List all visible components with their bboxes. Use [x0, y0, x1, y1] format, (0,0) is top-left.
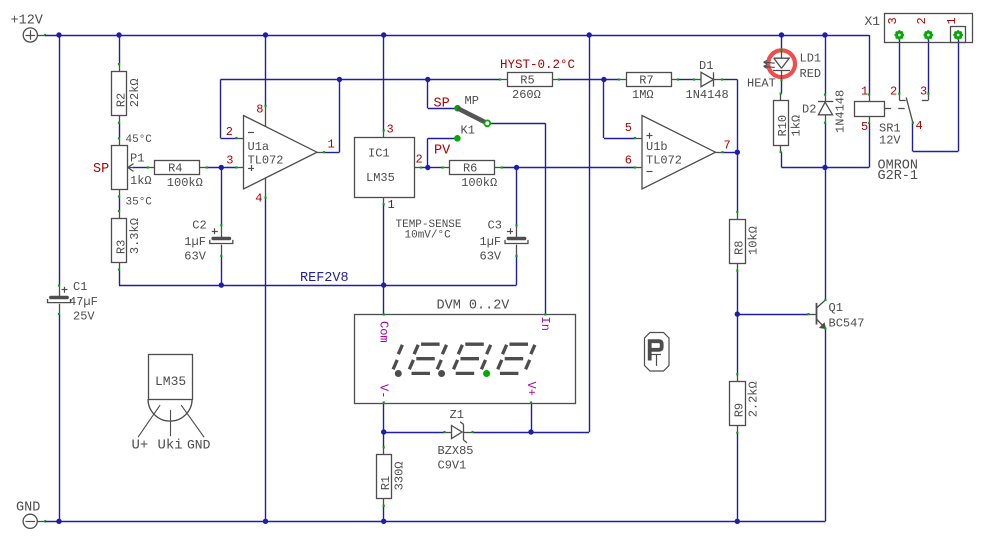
op-amp U1b input pin stubs: [635, 138, 642, 140]
svg-text:3: 3: [920, 85, 927, 99]
svg-text:260Ω: 260Ω: [512, 88, 541, 102]
svg-text:5: 5: [625, 121, 632, 135]
diode D1 pin stubs: [694, 79, 701, 81]
resistor R10 pin stubs: [780, 94, 782, 101]
svg-text:1µF: 1µF: [480, 235, 502, 249]
resistor R2 pin stubs: [119, 64, 121, 71]
resistor R7 pin stubs: [619, 79, 626, 81]
svg-text:7: 7: [724, 138, 731, 152]
transistor Q1 emitter with arrow: [816, 319, 825, 329]
relay SR1 contact arm: [906, 98, 913, 123]
capacitor C3 negative plate: [505, 240, 528, 244]
diode D1 cathode bar: [713, 72, 715, 86]
wire feedback line to R5: [340, 79, 501, 81]
wire +12V rail to D2: [825, 35, 827, 95]
wire K1 common to DVM In: [490, 123, 545, 125]
svg-text:100kΩ: 100kΩ: [167, 176, 203, 190]
wire X1-2 to relay contact 3: [928, 40, 930, 94]
wire +12V rail to R2: [119, 35, 121, 64]
wire relay contact 4 to X1-1: [912, 123, 914, 152]
wire R6 output junction down to C3: [516, 168, 518, 226]
resistor R1 body: [377, 455, 392, 499]
svg-text:LD1: LD1: [800, 52, 822, 66]
svg-text:6: 6: [625, 153, 632, 167]
wire IC1 pin 3 to +12V rail: [383, 35, 385, 131]
LM35 package leg Uki: [170, 410, 172, 436]
svg-text:47µF: 47µF: [69, 295, 98, 309]
svg-text:25V: 25V: [73, 309, 95, 323]
svg-text:R3: R3: [114, 240, 128, 254]
svg-text:10mV/°C: 10mV/°C: [405, 230, 452, 242]
wire SP branch down: [427, 80, 429, 109]
K1 jumper pad PV side: [454, 135, 461, 142]
svg-text:2: 2: [416, 153, 423, 167]
capacitor C1 plus sign: [62, 289, 68, 291]
wire Z1 anode line: [384, 432, 445, 434]
svg-text:IC1: IC1: [368, 147, 390, 161]
relay SR1 mechanical link dashes: [885, 108, 891, 110]
resistor R6 body: [450, 161, 495, 175]
K1 jumper common pad: [484, 120, 490, 126]
svg-text:BZX85: BZX85: [438, 444, 474, 458]
wire X1-3 to relay contact 2: [899, 40, 901, 94]
svg-text:In: In: [538, 317, 552, 331]
resistor R6 pin stubs: [443, 167, 450, 169]
svg-text:4: 4: [916, 119, 923, 133]
op-amp U1a output pin stub: [317, 152, 324, 154]
wire relay coil pin 5 down: [869, 123, 871, 168]
svg-text:HEAT: HEAT: [747, 77, 776, 91]
connector X1 pad 3: [894, 30, 904, 40]
wire R8 to Q1 base junction: [737, 271, 739, 315]
capacitor C2 positive plate: [213, 237, 229, 240]
svg-text:R9: R9: [733, 403, 747, 417]
wire Z1 junction to R1: [383, 432, 385, 447]
svg-text:V+: V+: [524, 382, 538, 396]
diode D2 cathode bar: [818, 101, 833, 103]
wire R6 to U1b pin 6: [501, 167, 635, 169]
potentiometer P1 pin stubs: [119, 138, 121, 145]
DVM digit 1: [398, 345, 402, 354]
svg-text:1N4148: 1N4148: [686, 88, 729, 102]
LM35 package semicircle: [148, 399, 192, 421]
+12V supply symbol: [23, 28, 37, 42]
wire junction down to U1b pin 5: [603, 80, 605, 139]
svg-text:R4: R4: [168, 161, 182, 175]
wire DVM V+ down to Z1 line: [531, 403, 533, 432]
resistor R9 body: [730, 382, 746, 426]
svg-text:Uki: Uki: [158, 438, 183, 454]
svg-text:330Ω: 330Ω: [393, 461, 407, 490]
relay SR1 coil pin stubs: [869, 95, 871, 102]
potentiometer P1 body: [112, 146, 128, 190]
LM35 package leg U+: [138, 405, 160, 437]
svg-text:2: 2: [890, 85, 897, 99]
op-amp U1b triangle: [642, 116, 716, 190]
IC1 LM35 body: [355, 138, 415, 198]
capacitor C1 positive plate: [51, 296, 67, 299]
DVM digit 8 first: [421, 343, 440, 346]
LED LD1 symbol: [781, 50, 783, 58]
capacitor C3 positive plate: [508, 237, 524, 240]
DVM decimal point 1: [395, 370, 402, 377]
capacitor C2 pin stubs: [221, 225, 223, 237]
svg-text:V-: V-: [377, 384, 391, 398]
svg-text:5: 5: [861, 120, 868, 134]
capacitor C2 negative plate: [210, 240, 233, 244]
K1 jumper pad SP side: [454, 105, 461, 112]
connector X1 body: [885, 14, 973, 43]
op-amp U1a pin 4 stub: [265, 178, 267, 198]
resistor R7 body: [627, 73, 672, 87]
resistor R3 pin stubs: [119, 211, 121, 218]
relay SR1 contact common piece: [899, 94, 901, 100]
resistor R4 pin stubs: [148, 167, 155, 169]
wire U1a pin 2 feedback loop: [221, 138, 237, 140]
svg-text:SP: SP: [93, 162, 109, 177]
zener diode Z1: [445, 432, 452, 434]
svg-text:TL072: TL072: [248, 153, 284, 167]
svg-text:BC547: BC547: [829, 317, 865, 331]
wire REF2V8 rail: [119, 285, 517, 287]
svg-text:100kΩ: 100kΩ: [461, 176, 497, 190]
wire IC1 pin 2 to junction: [421, 167, 428, 169]
svg-text:C1: C1: [73, 280, 87, 294]
svg-text:4: 4: [255, 192, 262, 206]
diode D2 triangle: [818, 102, 832, 115]
svg-text:22kΩ: 22kΩ: [128, 78, 142, 107]
svg-text:U1a: U1a: [248, 140, 270, 154]
wire GND rail rise to Q1 emitter: [825, 329, 827, 522]
wire P1 to R3: [119, 197, 121, 212]
svg-text:45°C: 45°C: [126, 134, 153, 146]
DVM digit 8 second: [465, 343, 484, 346]
svg-text:RED: RED: [800, 67, 822, 81]
wire Q1 base: [737, 314, 808, 316]
svg-text:1kΩ: 1kΩ: [790, 115, 804, 137]
LM35 package leg GND: [181, 405, 204, 437]
op-amp U1b + input marker: [647, 135, 653, 137]
svg-text:Com: Com: [377, 321, 391, 343]
svg-text:2.2kΩ: 2.2kΩ: [746, 381, 760, 417]
resistor R10 body: [774, 101, 789, 146]
wire +12V rail drop to relay coil pin 1: [869, 35, 871, 95]
wire R7 to D1: [678, 79, 694, 81]
connector X1 pad 2: [923, 30, 933, 40]
resistor R5 body: [508, 73, 553, 87]
IC1 pin stubs: [383, 131, 385, 138]
svg-text:P1: P1: [130, 151, 144, 165]
svg-text:R1: R1: [379, 476, 393, 490]
svg-text:MP: MP: [465, 94, 479, 108]
wire P1 wiper to R4: [133, 167, 148, 169]
op-amp U1a triangle: [244, 116, 318, 190]
DVM digit 8 third: [510, 343, 529, 346]
resistor R1 pin stubs: [383, 447, 385, 454]
svg-text:LM35: LM35: [366, 171, 395, 185]
svg-text:2: 2: [915, 17, 929, 24]
svg-text:Z1: Z1: [450, 408, 464, 422]
svg-text:3.3kΩ: 3.3kΩ: [128, 218, 142, 254]
svg-text:D2: D2: [802, 103, 816, 117]
svg-text:R2: R2: [114, 93, 128, 107]
wire junction down to R9: [737, 314, 739, 374]
wire Q1 collector to heat line: [825, 168, 827, 301]
svg-text:R7: R7: [639, 73, 653, 87]
svg-text:K1: K1: [461, 124, 475, 138]
diode D2 pin stubs: [825, 95, 827, 102]
wire R3 to REF2V8 rail: [119, 270, 121, 285]
wire DVM V- down to Z1 line: [383, 403, 385, 432]
wire R5 to R7 junction: [559, 79, 619, 81]
wire R2 to P1: [119, 123, 121, 138]
wire R10 to heat line: [781, 152, 783, 168]
svg-text:3: 3: [886, 17, 900, 24]
wire U1a pin 8 to +12V rail: [265, 35, 267, 106]
svg-text:1: 1: [328, 138, 335, 152]
op-amp U1a pin 8 stub: [265, 106, 267, 127]
LED LD1 red ring: [768, 50, 795, 77]
resistor R9 pin stubs: [737, 374, 739, 381]
wire +12V rail to DVM V+ / Z1: [589, 35, 591, 432]
resistor R2 body: [112, 72, 127, 116]
connector X1 pad 1: [953, 30, 963, 40]
svg-text:G2R-1: G2R-1: [878, 169, 919, 184]
svg-text:R10: R10: [776, 115, 790, 137]
svg-text:C3: C3: [488, 219, 502, 233]
wire IC1 pin 1 to REF2V8 rail: [383, 204, 385, 285]
ground symbol: [23, 514, 37, 528]
DVM module body: [355, 315, 576, 404]
wire U1a output rise to feedback line: [339, 80, 341, 153]
wire C2 to REF2V8 rail: [221, 256, 223, 285]
svg-text:10kΩ: 10kΩ: [746, 226, 760, 255]
resistor R3 body: [112, 219, 127, 263]
PT logo letter P: [650, 341, 662, 360]
wire R4 to U1a pin 3 junction: [207, 167, 237, 169]
capacitor C3 plus sign: [507, 231, 513, 233]
connector X1 pin 1 inner box: [951, 27, 966, 43]
svg-text:R5: R5: [520, 73, 534, 87]
PT logo frame: [645, 333, 670, 372]
wire D1 to U1b output junction: [722, 79, 737, 81]
svg-text:1: 1: [945, 17, 959, 24]
op-amp U1b output pin stub: [716, 152, 723, 154]
K1 jumper bar: [458, 108, 488, 123]
svg-text:1: 1: [388, 198, 395, 212]
svg-text:1N4148: 1N4148: [834, 90, 848, 133]
wire +12V rail to LD1: [781, 35, 783, 50]
svg-text:3: 3: [226, 153, 233, 167]
wire junction down to R8: [737, 152, 739, 212]
svg-text:R8: R8: [733, 241, 747, 255]
svg-text:D1: D1: [699, 59, 713, 73]
wire LD1 to R10: [781, 80, 783, 93]
wire R1 to GND rail: [383, 506, 385, 522]
resistor R4 body: [155, 161, 200, 175]
DVM decimal point 3 (green): [483, 370, 490, 377]
svg-text:PV: PV: [434, 144, 451, 159]
svg-text:+12V: +12V: [11, 14, 44, 29]
relay SR1 contact NO piece: [928, 94, 930, 100]
svg-text:12V: 12V: [879, 134, 901, 148]
wire U1a output: [325, 152, 340, 154]
wire C3 to REF2V8 rail corner: [516, 256, 518, 285]
capacitor C1 pin stubs: [59, 286, 61, 297]
svg-text:3: 3: [387, 123, 394, 137]
LED LD1 emission arrows: [764, 62, 775, 63]
wire Z1 cathode line: [473, 432, 531, 434]
svg-text:GND: GND: [187, 438, 211, 453]
capacitor C2 plus sign: [212, 231, 218, 233]
svg-text:1MΩ: 1MΩ: [632, 88, 654, 102]
transistor Q1 base stub: [809, 314, 817, 316]
wire D2 to heat line: [825, 123, 827, 168]
svg-text:8: 8: [256, 103, 263, 117]
svg-text:REF2V8: REF2V8: [300, 271, 349, 286]
op-amp U1a input pin stubs: [237, 138, 244, 140]
svg-text:TL072: TL072: [646, 153, 682, 167]
relay SR1 coil body: [855, 102, 885, 117]
wire junction to C2: [221, 168, 223, 226]
svg-text:63V: 63V: [184, 250, 206, 264]
svg-text:1kΩ: 1kΩ: [130, 174, 152, 188]
wire C1 to GND rail: [59, 314, 61, 521]
svg-text:SP: SP: [434, 97, 450, 112]
svg-text:X1: X1: [865, 14, 881, 29]
wire R9 to GND rail: [737, 433, 739, 522]
op-amp U1a - input marker: [248, 132, 254, 134]
wire heat line R10 to relay pin 5: [782, 167, 870, 169]
DVM pin connection ticks: [383, 313, 385, 315]
wire +12V to C1: [59, 35, 61, 286]
resistor R5 pin stubs: [500, 79, 507, 81]
svg-text:63V: 63V: [480, 250, 502, 264]
wire PV to R6 input junction: [428, 138, 455, 140]
svg-text:DVM 0..2V: DVM 0..2V: [437, 299, 511, 314]
wire DVM Com to REF2V8 rail: [383, 285, 385, 314]
potentiometer P1 wiper arrow: [128, 167, 134, 169]
wire U1a pin 4 to GND rail: [265, 198, 267, 522]
svg-text:LM35: LM35: [155, 374, 186, 389]
transistor Q1 base bar: [816, 303, 818, 325]
LM35 package drawing body: [149, 355, 193, 400]
PT logo letter T: [652, 354, 662, 356]
svg-text:HYST-0.2°C: HYST-0.2°C: [500, 58, 575, 72]
svg-text:GND: GND: [16, 501, 40, 516]
op-amp U1b - input marker: [647, 171, 653, 173]
svg-text:1: 1: [861, 85, 868, 99]
wire junction to R6: [428, 167, 443, 169]
transistor Q1 collector: [816, 300, 825, 309]
svg-text:35°C: 35°C: [126, 196, 153, 208]
svg-text:U1b: U1b: [646, 140, 668, 154]
op-amp U1a + input marker: [248, 168, 254, 170]
wire +12V rail: [45, 35, 869, 37]
diode D1 triangle: [701, 72, 714, 86]
svg-text:U+: U+: [132, 438, 149, 454]
resistor R8 pin stubs: [737, 212, 739, 219]
capacitor C3 pin stubs: [516, 225, 518, 237]
svg-text:1µF: 1µF: [184, 235, 206, 249]
svg-text:C2: C2: [192, 219, 206, 233]
resistor R8 body: [730, 220, 746, 264]
svg-text:2: 2: [226, 125, 233, 139]
svg-text:R6: R6: [463, 161, 477, 175]
wire GND rail: [45, 521, 825, 523]
DVM decimal point 2: [438, 370, 445, 377]
wire U1b output to junction: [723, 152, 738, 154]
capacitor C1 negative plate: [48, 299, 71, 303]
svg-text:C9V1: C9V1: [438, 459, 467, 473]
svg-text:Q1: Q1: [829, 301, 843, 315]
